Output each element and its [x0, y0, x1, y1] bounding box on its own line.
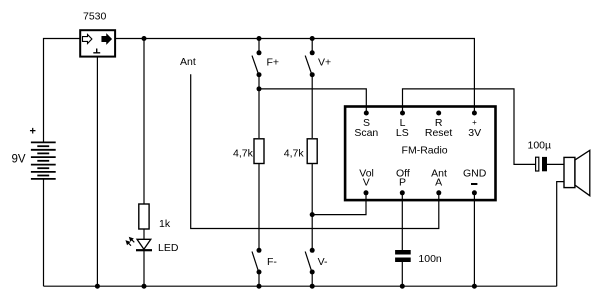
svg-text:P: P — [399, 177, 406, 189]
LED emission arrows — [126, 238, 134, 246]
wire LED branch upper — [143, 39, 145, 205]
junction S branch — [257, 86, 262, 91]
capacitor C1 100n — [395, 250, 411, 255]
switch V- top terminal — [310, 248, 315, 253]
svg-text:7530: 7530 — [83, 11, 107, 23]
pin dot L — [400, 111, 405, 116]
svg-text:4,7k: 4,7k — [284, 147, 305, 159]
svg-text:V+: V+ — [318, 57, 331, 69]
pin dot R — [436, 111, 441, 116]
switch S2 V+ lever — [305, 56, 312, 75]
regulator open arrow — [83, 35, 92, 44]
svg-text:100n: 100n — [418, 253, 442, 265]
svg-text:Scan: Scan — [354, 127, 378, 139]
svg-text:F+: F+ — [267, 57, 280, 69]
switch S4 V- lever — [305, 252, 311, 272]
junction 100n on bottom rail — [400, 284, 405, 289]
junction GND wire on bottom rail — [472, 284, 477, 289]
wire speaker bottom to rail — [557, 182, 565, 287]
svg-text:LS: LS — [396, 127, 409, 139]
pin dot S — [364, 111, 369, 116]
svg-text:V-: V- — [318, 256, 328, 268]
IC FM-Radio box — [345, 107, 495, 201]
svg-text:+: + — [30, 126, 36, 138]
svg-text:GND: GND — [463, 167, 487, 179]
wire S pin branch — [259, 89, 366, 113]
resistor R1 4,7k (F) — [254, 139, 264, 164]
switch F- bottom terminal — [257, 270, 262, 275]
switch S3 F- lever — [252, 252, 258, 272]
wire V- switch to rail — [311, 272, 313, 286]
switch S1 F+ lever — [252, 56, 259, 75]
junction F- on bottom rail — [257, 284, 262, 289]
svg-text:V: V — [363, 177, 370, 189]
svg-text:4,7k: 4,7k — [233, 147, 254, 159]
svg-text:Reset: Reset — [425, 127, 453, 139]
switch V- bottom terminal — [310, 270, 315, 275]
junction Vol branch — [310, 212, 315, 217]
regulator U1 7530 box — [80, 30, 115, 56]
wire 7530 ground down — [96, 57, 98, 287]
pin dot Ant — [436, 190, 441, 195]
battery BT1 9V — [31, 142, 56, 179]
LED cathode bar — [136, 249, 152, 251]
wire bottom rail — [44, 285, 557, 287]
wire 1k to LED — [143, 229, 145, 239]
capacitor C2 100u electrolytic — [536, 157, 539, 171]
pin label minus — [471, 183, 477, 185]
svg-text:LED: LED — [158, 242, 179, 254]
junction V+ on top rail — [310, 36, 315, 41]
junction F+ on top rail — [257, 36, 262, 41]
junction V- on bottom rail — [310, 284, 315, 289]
wire F- switch to rail — [258, 272, 260, 286]
wire LED to rail — [143, 250, 145, 286]
regulator filled arrow — [102, 35, 111, 44]
regulator internal ground mark — [93, 49, 100, 53]
wire battery bottom to rail — [43, 179, 45, 286]
wire Vol pin branch — [312, 193, 366, 215]
wire F+ rail to switch — [258, 39, 260, 53]
wire L pin to 100u cap — [403, 89, 536, 164]
LED D1 triangle — [137, 239, 151, 249]
wire V+ switch to resistor — [311, 75, 313, 138]
wire V+ rail to switch — [311, 39, 313, 53]
wire 100n to rail — [401, 262, 403, 286]
resistor R2 4,7k (V) — [307, 139, 317, 164]
svg-text:9V: 9V — [12, 154, 26, 166]
pin dot Off — [400, 190, 405, 195]
junction LED on bottom rail — [142, 284, 147, 289]
svg-text:+: + — [472, 118, 477, 127]
wire V resistor to V- switch — [311, 164, 313, 251]
svg-text:FM-Radio: FM-Radio — [402, 144, 448, 156]
switch F+ bottom terminal — [257, 72, 262, 77]
switch F- top terminal — [257, 248, 262, 253]
svg-text:100µ: 100µ — [528, 140, 552, 152]
switch F+ top terminal — [257, 50, 262, 55]
junction 7530 gnd on bottom rail — [95, 284, 100, 289]
pin dot GND — [472, 190, 477, 195]
wire top rail 7530 output to 3V corner — [116, 39, 475, 114]
speaker LS1 — [564, 157, 575, 187]
svg-text:3V: 3V — [468, 127, 481, 139]
pin dot Vol — [364, 190, 369, 195]
svg-text:1k: 1k — [159, 218, 171, 230]
wire Off P pin to 100n — [401, 193, 403, 250]
switch V+ bottom terminal — [310, 72, 315, 77]
wire battery top to rail — [44, 39, 80, 143]
junction LED branch on top rail — [142, 36, 147, 41]
pin dot 3V — [472, 111, 477, 116]
svg-text:A: A — [435, 177, 442, 189]
resistor R3 1k — [139, 204, 149, 229]
wire F resistor to F- switch — [258, 164, 260, 251]
switch V+ top terminal — [310, 50, 315, 55]
wire 100u cap to speaker — [547, 163, 565, 165]
svg-text:F-: F- — [267, 256, 277, 268]
wire GND pin to rail — [473, 193, 475, 286]
wire F+ switch to resistor — [258, 75, 260, 138]
svg-text:Ant: Ant — [180, 56, 196, 68]
wire antenna down and to A pin — [191, 74, 439, 228]
speaker cone — [575, 150, 590, 195]
